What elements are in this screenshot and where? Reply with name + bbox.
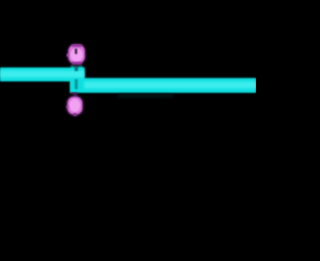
pad P1 (top) left nub: [67, 54, 70, 57]
wire glow: [0, 66, 256, 93]
pad P1 lower dim bridge: [72, 63, 82, 65]
wire highlight right segment: [84, 82, 256, 89]
pad P2 (bottom) top sliver: [70, 92, 78, 93]
faint smear below right trace: [118, 94, 173, 98]
component lead dark slot upper: [75, 66, 78, 71]
pad P1 (top) halo: [68, 44, 86, 64]
wire column top dim bump: [71, 65, 82, 67]
pad P1 (top) body: [69, 45, 85, 63]
pad P2 (bottom) left nub: [66, 105, 68, 108]
pad P1 (top) dark hole: [75, 49, 77, 54]
wire: horizontal cyan trace with jog: [0, 67, 256, 93]
pad P2 (bottom) connector faint: [73, 93, 77, 97]
component lead dark slot lower: [75, 79, 78, 89]
pad P1 (top) bright center: [70, 48, 82, 62]
pad P1 (top) connector sliver: [72, 62, 82, 64]
pad P2 (bottom) bright center: [69, 99, 80, 112]
pad P2 (bottom) halo: [67, 96, 84, 115]
wire highlight left segment: [0, 71, 84, 78]
pad P2 (bottom) body: [68, 97, 83, 114]
pad P1 (top) top cap: [72, 45, 82, 47]
component lead dark gap segment: [75, 63, 79, 67]
pad P2 (bottom) bottom tail: [73, 113, 77, 116]
